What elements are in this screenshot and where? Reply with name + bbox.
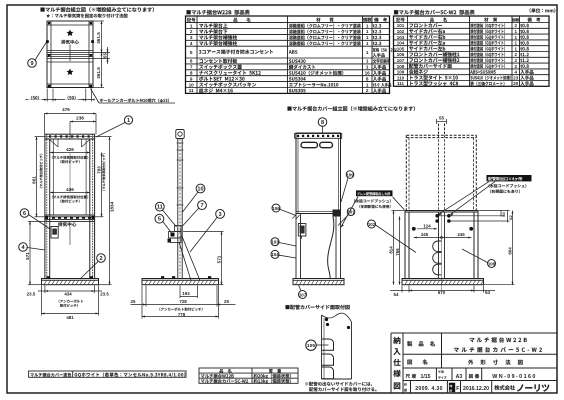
svg-text:107: 107 xyxy=(299,292,307,297)
svg-text:2009. 4.30: 2009. 4.30 xyxy=(415,386,443,392)
svg-text:54: 54 xyxy=(485,290,490,295)
svg-text:23.5: 23.5 xyxy=(27,291,36,296)
svg-text:703: 703 xyxy=(97,166,102,174)
svg-text:481: 481 xyxy=(66,315,74,320)
svg-text:103: 103 xyxy=(271,240,279,245)
svg-text:6: 6 xyxy=(23,211,26,217)
svg-text:571: 571 xyxy=(217,255,222,263)
svg-text:7: 7 xyxy=(190,65,193,70)
svg-text:1: 1 xyxy=(190,23,193,28)
svg-text:1: 1 xyxy=(127,118,130,124)
svg-text:434: 434 xyxy=(64,291,72,296)
svg-text:16: 16 xyxy=(365,71,371,76)
svg-text:2: 2 xyxy=(99,256,102,262)
svg-text:108: 108 xyxy=(397,64,405,69)
svg-text:245: 245 xyxy=(421,232,429,237)
svg-text:1: 1 xyxy=(366,82,369,87)
svg-text:20: 20 xyxy=(513,81,519,86)
svg-text:11: 11 xyxy=(157,205,163,211)
svg-text:106: 106 xyxy=(272,206,280,211)
svg-text:107: 107 xyxy=(397,58,405,63)
svg-text:1834: 1834 xyxy=(110,201,115,212)
svg-text:778: 778 xyxy=(178,312,186,317)
svg-text:108: 108 xyxy=(488,261,496,266)
svg-text:361.5: 361.5 xyxy=(96,32,101,44)
svg-text:23: 23 xyxy=(513,75,519,80)
svg-text:361.5: 361.5 xyxy=(96,67,101,79)
svg-text:436: 436 xyxy=(66,187,74,192)
svg-text:9: 9 xyxy=(190,76,193,81)
svg-text:1: 1 xyxy=(366,35,369,40)
svg-text:1: 1 xyxy=(366,59,369,64)
svg-text:1/15: 1/15 xyxy=(420,374,430,380)
svg-text:193: 193 xyxy=(182,291,190,296)
svg-text:814: 814 xyxy=(388,246,393,254)
svg-text:476: 476 xyxy=(62,107,70,112)
svg-text:55: 55 xyxy=(439,116,444,121)
svg-text:11: 11 xyxy=(189,88,194,93)
svg-text:60: 60 xyxy=(501,212,506,217)
svg-text:245: 245 xyxy=(457,232,465,237)
svg-text:6: 6 xyxy=(190,59,193,64)
svg-text:A3: A3 xyxy=(456,374,463,380)
svg-text:3: 3 xyxy=(219,212,222,218)
svg-text:104: 104 xyxy=(271,252,279,257)
svg-text:54: 54 xyxy=(394,292,399,297)
svg-text:105: 105 xyxy=(307,343,315,349)
svg-text:2: 2 xyxy=(190,29,193,34)
svg-text:4: 4 xyxy=(190,41,193,46)
svg-text:2: 2 xyxy=(366,88,369,93)
svg-text:10: 10 xyxy=(189,82,195,87)
svg-text:102: 102 xyxy=(368,222,376,227)
svg-text:55: 55 xyxy=(103,53,108,59)
svg-text:426: 426 xyxy=(66,147,74,152)
svg-text:23.5: 23.5 xyxy=(100,291,109,296)
svg-text:103: 103 xyxy=(397,35,405,40)
svg-text:106: 106 xyxy=(397,52,405,57)
svg-text:111: 111 xyxy=(397,81,405,86)
svg-text:8: 8 xyxy=(321,120,324,126)
svg-text:2016.12.20: 2016.12.20 xyxy=(463,386,489,392)
svg-text:9: 9 xyxy=(30,61,33,67)
svg-text:109: 109 xyxy=(397,70,405,75)
svg-text:5: 5 xyxy=(158,217,161,223)
svg-text:F: F xyxy=(456,386,459,392)
svg-text:1: 1 xyxy=(366,50,369,55)
svg-text:861: 861 xyxy=(32,176,37,184)
svg-text:1: 1 xyxy=(366,41,369,46)
svg-text:3: 3 xyxy=(190,35,193,40)
svg-text:8: 8 xyxy=(190,71,193,76)
svg-text:1: 1 xyxy=(366,29,369,34)
svg-text:8: 8 xyxy=(366,76,369,81)
svg-text:670: 670 xyxy=(438,290,446,295)
svg-text:25: 25 xyxy=(131,299,136,304)
svg-text:104: 104 xyxy=(397,41,405,46)
svg-text:7: 7 xyxy=(200,203,203,209)
svg-text:25: 25 xyxy=(224,299,229,304)
svg-text:766: 766 xyxy=(395,248,400,256)
svg-text:604: 604 xyxy=(508,247,513,255)
svg-text:728: 728 xyxy=(179,299,187,304)
svg-text:WN-09-0160: WN-09-0160 xyxy=(492,374,537,380)
svg-text:110: 110 xyxy=(397,75,405,80)
svg-text:105: 105 xyxy=(397,46,405,51)
svg-text:238: 238 xyxy=(76,116,84,121)
svg-text:109: 109 xyxy=(346,172,354,177)
svg-text:124: 124 xyxy=(423,223,431,228)
svg-text:1: 1 xyxy=(366,23,369,28)
svg-text:571: 571 xyxy=(25,252,30,260)
svg-text:101: 101 xyxy=(397,23,405,28)
svg-text:10: 10 xyxy=(197,187,203,193)
svg-text:5: 5 xyxy=(190,50,193,55)
svg-text:1: 1 xyxy=(366,65,369,70)
svg-text:102: 102 xyxy=(397,29,405,34)
